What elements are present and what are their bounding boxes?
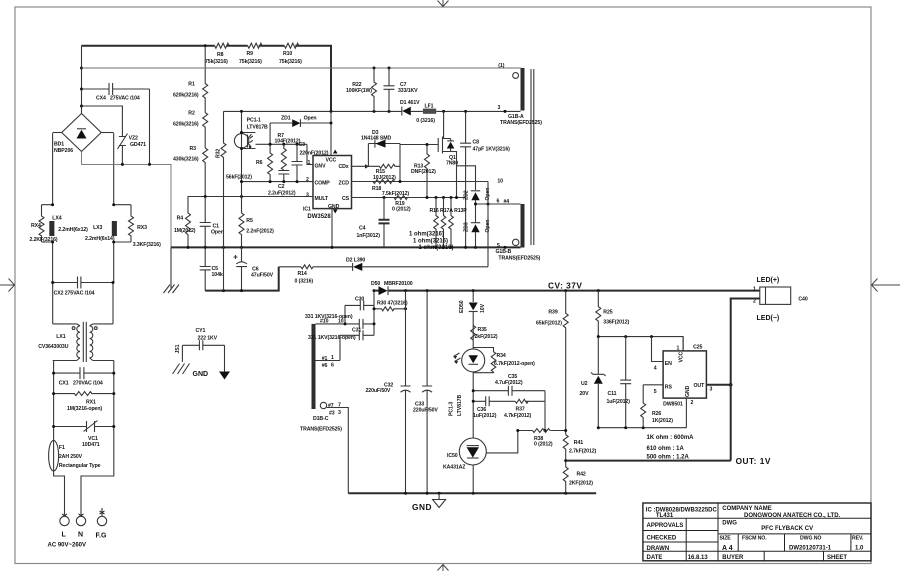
wire EN VCC node <box>598 337 683 351</box>
svg-text:C40: C40 <box>798 297 807 303</box>
svg-text:10V: 10V <box>480 303 486 313</box>
svg-text:D2 L390: D2 L390 <box>346 258 365 264</box>
svg-text:CV: 37V: CV: 37V <box>548 281 582 291</box>
wire bridge right vertex to leg <box>101 132 114 134</box>
svg-text:APPROVALS: APPROVALS <box>647 523 684 529</box>
svg-text:OUT: 1V: OUT: 1V <box>736 456 771 466</box>
svg-text:CX2 275VAC /104: CX2 275VAC /104 <box>54 291 95 297</box>
svg-text:5: 5 <box>654 389 657 395</box>
svg-text:TRANS(EFD2525): TRANS(EFD2525) <box>300 427 342 433</box>
POWER <box>279 111 521 284</box>
svg-text:104F(2012): 104F(2012) <box>275 138 301 144</box>
svg-text:KA431AZ: KA431AZ <box>443 465 466 471</box>
svg-text:7: 7 <box>338 403 341 409</box>
svg-text:R35: R35 <box>478 327 487 333</box>
svg-text:R8: R8 <box>217 52 224 58</box>
svg-text:R6: R6 <box>256 160 263 166</box>
wire secondary return <box>327 408 349 494</box>
svg-text:R39: R39 <box>548 310 557 316</box>
pin arrow VCC <box>333 150 338 154</box>
svg-text:R32: R32 <box>216 149 222 158</box>
wire IC GND pin <box>685 398 687 428</box>
svg-text:COMP: COMP <box>315 180 331 186</box>
svg-text:3: 3 <box>306 193 309 199</box>
resistor R7 <box>281 144 286 170</box>
svg-text:R22: R22 <box>352 82 361 88</box>
svg-text:R30 47(3216): R30 47(3216) <box>377 301 408 307</box>
zener ZD1 <box>270 119 331 127</box>
wire reg bottom net <box>598 427 686 429</box>
wire top rail <box>82 46 332 112</box>
resistor R9 <box>248 43 262 48</box>
svg-text:R9: R9 <box>247 51 254 57</box>
zener U2 <box>597 337 599 428</box>
resistor R18 <box>373 180 395 184</box>
svg-text:R4: R4 <box>177 216 184 222</box>
svg-text:EN: EN <box>665 361 672 367</box>
svg-text:104k: 104k <box>212 272 223 278</box>
svg-text:2: 2 <box>691 400 694 406</box>
IC U1 DW3528 <box>313 156 352 209</box>
wire Q1 gate <box>400 144 438 146</box>
TITLEBLOCK <box>643 503 871 561</box>
capacitor C33 electrolytic <box>422 291 432 494</box>
capacitor CX2 <box>53 277 113 289</box>
svg-text:#6: #6 <box>322 363 328 369</box>
wire C35 net <box>473 390 545 392</box>
svg-text:REV.: REV. <box>852 535 864 541</box>
varistor VZ2 <box>118 131 128 164</box>
svg-text:1K ohm : 600mA: 1K ohm : 600mA <box>647 435 695 441</box>
resistor R41 <box>563 435 568 467</box>
svg-text:3: 3 <box>338 410 341 416</box>
wire IC GND pin <box>331 209 333 248</box>
wire 431 reference <box>486 431 518 453</box>
FEEDBACK <box>443 291 566 494</box>
ground chassis left <box>173 364 190 375</box>
wire C36 R37 net <box>473 391 545 402</box>
zener ED50 <box>469 303 478 311</box>
svg-text:4: 4 <box>654 366 657 372</box>
svg-text:331 1KV(3216-open): 331 1KV(3216-open) <box>308 335 356 341</box>
wire bridge negative bus <box>82 152 172 248</box>
svg-text:R37: R37 <box>516 407 525 413</box>
wire RS pin <box>643 384 663 386</box>
svg-text:RX4: RX4 <box>31 223 41 229</box>
svg-text:R18: R18 <box>372 186 381 192</box>
svg-text:IC50: IC50 <box>447 453 458 459</box>
wire LED return <box>731 299 760 461</box>
svg-text:N: N <box>78 532 83 539</box>
svg-text:2.2nF(2012): 2.2nF(2012) <box>246 229 274 235</box>
svg-text:4.7uF(2012): 4.7uF(2012) <box>495 380 523 386</box>
svg-text:ED50: ED50 <box>459 300 465 313</box>
svg-text:RX3: RX3 <box>137 225 147 231</box>
svg-text:220uF/50V: 220uF/50V <box>413 408 438 414</box>
wire MULT net <box>188 197 313 206</box>
svg-text:1M(3216-open): 1M(3216-open) <box>67 406 102 412</box>
resistor R37 <box>515 399 528 403</box>
resistor R1 <box>203 46 208 113</box>
optocoupler PC1-1 transistor <box>241 111 243 213</box>
svg-text:R41: R41 <box>574 440 583 446</box>
svg-text:1: 1 <box>308 160 311 166</box>
wire AC left leg <box>53 133 65 516</box>
svg-text:C25: C25 <box>693 345 702 351</box>
svg-text:CX1: CX1 <box>59 381 69 387</box>
wire VCC aux line <box>224 110 521 112</box>
svg-text:VCC: VCC <box>679 351 685 362</box>
svg-text:430k(3216): 430k(3216) <box>173 157 199 163</box>
svg-text:Open: Open <box>304 115 317 121</box>
svg-text:1uF(2012): 1uF(2012) <box>607 399 631 405</box>
svg-text:IC1: IC1 <box>303 207 311 213</box>
svg-text:GD471: GD471 <box>130 142 146 148</box>
resistor R6 <box>268 123 273 182</box>
svg-text:DATE: DATE <box>647 555 663 561</box>
svg-text:LX3: LX3 <box>93 225 102 231</box>
capacitor C30 <box>345 300 374 324</box>
svg-text:100KF(1W): 100KF(1W) <box>346 88 372 94</box>
terminal N <box>76 516 85 525</box>
fuse F1 <box>49 440 59 471</box>
diode D3 <box>368 144 400 167</box>
svg-text:336F(2012): 336F(2012) <box>603 320 629 326</box>
svg-text:TRANS(EFD2525): TRANS(EFD2525) <box>500 120 542 126</box>
BRIDGE <box>53 46 179 293</box>
svg-text:DW20120731-1: DW20120731-1 <box>789 546 832 552</box>
svg-text:2AH 250V: 2AH 250V <box>59 454 83 460</box>
wire pin4 net <box>476 203 521 205</box>
svg-text:1uF(2012): 1uF(2012) <box>473 413 497 419</box>
snubber node column <box>373 291 375 336</box>
ground secondary GND <box>433 493 446 507</box>
svg-text:2kF(2012): 2kF(2012) <box>475 334 498 340</box>
pin 5 connector <box>513 239 519 245</box>
svg-text:0 (2012): 0 (2012) <box>534 441 553 447</box>
svg-text:PFC FLYBACK CV: PFC FLYBACK CV <box>761 526 813 532</box>
svg-text:C4: C4 <box>359 226 366 232</box>
svg-text:LTV817B: LTV817B <box>247 124 268 130</box>
ground earth right <box>219 372 230 380</box>
varistor VC1 <box>54 421 114 433</box>
svg-text:GNV: GNV <box>315 163 327 169</box>
svg-text:FSCM NO.: FSCM NO. <box>742 535 767 541</box>
svg-text:DNF(2012): DNF(2012) <box>411 169 436 175</box>
svg-text:65kF(2012): 65kF(2012) <box>536 321 562 327</box>
VCCLINE <box>82 67 522 124</box>
wire secondary tap pins 1 6 <box>316 360 341 362</box>
pin 7 connector <box>320 402 326 408</box>
capacitor C3 <box>292 144 303 181</box>
bridge rectifier BD1 <box>62 114 101 152</box>
svg-text:RS: RS <box>665 384 673 390</box>
svg-text:VCC: VCC <box>326 158 337 164</box>
resistor R2 <box>203 113 208 148</box>
wire ZCD net <box>352 181 489 183</box>
svg-text:GND: GND <box>193 371 209 378</box>
diode D1 <box>402 107 411 116</box>
svg-text:6.7kF(2012-open): 6.7kF(2012-open) <box>494 361 535 367</box>
svg-text:Rectangular Type: Rectangular Type <box>59 463 101 469</box>
svg-text:LED(+): LED(+) <box>757 277 780 284</box>
capacitor C11 <box>620 337 631 428</box>
svg-text:222 1KV: 222 1KV <box>198 335 218 341</box>
TOPRES <box>82 43 521 292</box>
svg-text:2KF(2012): 2KF(2012) <box>569 481 593 487</box>
svg-text:C8: C8 <box>473 139 480 145</box>
resistor R39 <box>563 291 568 435</box>
MOSFET Q1 <box>438 111 450 153</box>
svg-text:3: 3 <box>710 387 713 393</box>
ferrite bead LF1 <box>423 109 436 114</box>
svg-text:2: 2 <box>306 177 309 183</box>
svg-text:1M(2012): 1M(2012) <box>174 228 196 234</box>
capacitor CX4 <box>82 83 150 95</box>
svg-text:JS1: JS1 <box>175 344 181 353</box>
svg-text:D1B-C: D1B-C <box>313 416 329 422</box>
wire GND bus primary <box>171 246 521 248</box>
wire GND bus secondary <box>348 492 596 494</box>
svg-text:F.G: F.G <box>96 533 107 540</box>
resistor R38 <box>533 429 551 433</box>
wire VCC pin <box>682 337 684 351</box>
junction dots LX4 <box>51 203 54 206</box>
svg-text:DONGWOON ANATECH CO., LTD.: DONGWOON ANATECH CO., LTD. <box>744 513 841 519</box>
wire AC line to VZ2 <box>82 106 123 131</box>
svg-text:MBRF20100: MBRF20100 <box>384 281 413 287</box>
svg-text:CV3643003U: CV3643003U <box>38 344 69 350</box>
svg-text:10: 10 <box>497 179 503 185</box>
svg-text:DRAWN: DRAWN <box>647 546 670 552</box>
wire VCC pin column <box>330 111 332 155</box>
diode D50 <box>379 286 388 295</box>
svg-text:A 4: A 4 <box>722 545 733 552</box>
svg-text:D1 461V: D1 461V <box>400 100 420 106</box>
svg-text:CDx: CDx <box>339 164 349 170</box>
svg-text:1: 1 <box>753 287 756 293</box>
resistor R4 <box>186 205 191 247</box>
resistor R14 <box>301 265 313 269</box>
wire COMP net <box>242 181 314 183</box>
capacitor CY1 <box>182 340 224 350</box>
transformer T1 secondary winding <box>312 324 316 409</box>
svg-text:SHEET: SHEET <box>827 555 847 561</box>
resistor RX1 <box>54 392 114 396</box>
svg-text:NBP206: NBP206 <box>54 148 73 154</box>
svg-text:270VAC /104: 270VAC /104 <box>73 381 103 387</box>
wire Q1 source <box>451 152 457 198</box>
svg-text:R1: R1 <box>188 82 195 88</box>
zener ZD2 <box>471 192 479 200</box>
svg-text:D50: D50 <box>371 281 380 287</box>
wire GNV pin <box>307 144 313 164</box>
svg-text:BD1: BD1 <box>54 142 64 148</box>
IC U3 DW8501 <box>663 351 706 398</box>
CYBLOCK <box>173 328 231 380</box>
svg-text:TL431: TL431 <box>656 513 674 519</box>
svg-text:C31: C31 <box>352 327 361 333</box>
svg-text:R14: R14 <box>298 271 307 277</box>
svg-text:C7: C7 <box>400 82 407 88</box>
svg-text:COMPANY NAME: COMPANY NAME <box>722 506 771 512</box>
svg-text:MULT: MULT <box>315 196 330 202</box>
pin arrow GND <box>333 210 338 214</box>
svg-text:75k(3216): 75k(3216) <box>205 59 228 65</box>
capacitor C2 <box>278 171 289 182</box>
svg-text:2.2uF(2012): 2.2uF(2012) <box>268 191 296 197</box>
wire R38 drop <box>544 401 546 430</box>
SECONDARY <box>300 281 760 512</box>
svg-text:Open: Open <box>211 230 224 236</box>
svg-text:CHECKED: CHECKED <box>647 536 677 542</box>
svg-text:AC 90V~260V: AC 90V~260V <box>48 543 87 549</box>
pin 1 connector <box>513 73 519 79</box>
svg-text:610 ohm : 1A: 610 ohm : 1A <box>647 446 685 452</box>
wire CS net <box>352 197 466 199</box>
wire aux D2 net <box>279 266 488 268</box>
svg-text:GND: GND <box>412 502 432 512</box>
svg-text:SIZE: SIZE <box>720 535 732 541</box>
svg-text:3.3KF(3216): 3.3KF(3216) <box>133 242 161 248</box>
svg-text:1: 1 <box>677 346 680 352</box>
resistor R19 <box>394 196 408 200</box>
wire output rail CV <box>374 290 760 292</box>
CTRL <box>224 110 521 249</box>
svg-text:U2: U2 <box>581 381 588 387</box>
connector CN1 LED <box>760 287 791 304</box>
svg-text:C11: C11 <box>608 391 617 397</box>
svg-text:R10: R10 <box>283 51 292 57</box>
resistor R42 <box>563 467 568 493</box>
resistor R32 <box>221 111 226 290</box>
svg-text:#7: #7 <box>328 403 334 409</box>
svg-text:PC1-3: PC1-3 <box>449 402 455 416</box>
inductor LX3 <box>112 221 117 236</box>
svg-text:R3: R3 <box>190 146 197 152</box>
capacitor CX1 <box>54 367 114 379</box>
svg-text:LED(−): LED(−) <box>757 315 780 322</box>
wire AC right leg <box>81 133 114 516</box>
svg-text:LX4: LX4 <box>52 216 61 222</box>
wire R38 net <box>518 430 566 432</box>
resistor R5 <box>239 213 244 247</box>
svg-text:620k(3216): 620k(3216) <box>173 122 199 128</box>
svg-text:1.0: 1.0 <box>855 546 864 552</box>
resistor RX4 <box>39 205 53 242</box>
capacitor C31a <box>359 319 363 329</box>
svg-text:16.8.13: 16.8.13 <box>688 555 709 561</box>
svg-text:2.2mH(6x14): 2.2mH(6x14) <box>85 236 115 242</box>
svg-text:10D471: 10D471 <box>82 442 100 448</box>
capacitor C31 <box>340 330 374 360</box>
terminal F.G <box>97 516 106 525</box>
svg-text:ZD2: ZD2 <box>464 190 470 200</box>
svg-text:ZD3: ZD3 <box>464 222 470 232</box>
resistor R26 <box>641 385 646 428</box>
svg-text:10: 10 <box>338 319 344 325</box>
wire ZCD to aux winding <box>487 182 489 267</box>
svg-text:R42: R42 <box>577 472 586 478</box>
svg-text:47uF/50V: 47uF/50V <box>251 273 274 279</box>
transformer T1 core <box>530 69 532 245</box>
capacitor C8 <box>460 111 471 247</box>
wire D3 R15 node B <box>399 144 401 182</box>
svg-text:4.7kF(2012): 4.7kF(2012) <box>504 413 532 419</box>
wire CY1 right leg <box>224 345 226 371</box>
svg-text:OUT: OUT <box>694 383 706 389</box>
svg-text:75k(3216): 75k(3216) <box>279 59 302 65</box>
svg-text:DW3528: DW3528 <box>307 214 331 220</box>
capacitor C5 <box>200 247 211 290</box>
svg-text:20V: 20V <box>580 391 590 397</box>
svg-text:275VAC /104: 275VAC /104 <box>110 96 140 102</box>
svg-text:1 ohm(3216): 1 ohm(3216) <box>409 232 444 238</box>
capacitor C7 <box>384 68 395 111</box>
inductor LX4 <box>49 221 54 236</box>
svg-text:TRANS(EFD2525): TRANS(EFD2525) <box>498 255 540 261</box>
transformer T1 primary winding lower <box>521 204 525 248</box>
capacitor C32 electrolytic <box>401 291 411 494</box>
resistor R30 <box>374 307 406 311</box>
resistor R35 <box>471 326 476 341</box>
wire feedback column <box>472 291 474 494</box>
wire C5 C6 bottom <box>205 267 279 291</box>
svg-text:CX4: CX4 <box>96 96 106 102</box>
transformer T1 primary winding upper <box>521 68 525 111</box>
junction dot top rail R1 <box>204 44 207 47</box>
svg-text:DW8501: DW8501 <box>663 401 683 407</box>
optocoupler PC1-3 LED <box>462 349 485 372</box>
resistor R10 <box>284 43 298 48</box>
wire EN pin <box>652 337 664 362</box>
svg-text:LF1: LF1 <box>425 104 434 110</box>
resistor R15 <box>368 164 400 168</box>
wire CY1 left leg <box>181 345 183 362</box>
svg-text:7.5kF(2012): 7.5kF(2012) <box>382 191 410 197</box>
capacitor C36 <box>486 396 490 406</box>
svg-text:1K(2012): 1K(2012) <box>652 418 673 424</box>
svg-text:R34: R34 <box>497 353 506 359</box>
svg-text:47pF 1KV(3216): 47pF 1KV(3216) <box>473 147 511 153</box>
svg-text:331 1KV(3216-open): 331 1KV(3216-open) <box>305 314 353 320</box>
capacitor C35 <box>508 386 512 396</box>
shunt regulator U50 KA431 <box>459 438 486 465</box>
resistor R17 <box>441 198 446 248</box>
svg-text:F1: F1 <box>59 445 65 451</box>
svg-text:DWG NO: DWG NO <box>800 535 821 541</box>
svg-text:#10: #10 <box>320 319 329 325</box>
XFMR <box>496 63 543 261</box>
svg-text:1: 1 <box>331 355 334 361</box>
resistor R3 <box>203 148 208 197</box>
junction dots AC line 1 <box>80 67 83 70</box>
svg-text:ZD1: ZD1 <box>281 115 291 121</box>
svg-text:R26: R26 <box>652 411 661 417</box>
svg-text:C3: C3 <box>299 142 306 148</box>
svg-text:C30: C30 <box>355 297 364 303</box>
wire secondary top pin10 <box>316 323 375 325</box>
resistor R34 <box>473 348 496 373</box>
svg-text:1nF(3012): 1nF(3012) <box>357 233 381 239</box>
svg-text:GND: GND <box>685 385 691 397</box>
svg-text:333/1KV: 333/1KV <box>398 88 418 94</box>
svg-text:DWG: DWG <box>722 521 737 527</box>
wire CDx pin <box>352 165 369 167</box>
svg-text:R16 R17A R13P: R16 R17A R13P <box>430 208 468 214</box>
svg-text:G1B-B: G1B-B <box>496 249 512 255</box>
svg-text:1 ohm(3216): 1 ohm(3216) <box>413 239 448 245</box>
